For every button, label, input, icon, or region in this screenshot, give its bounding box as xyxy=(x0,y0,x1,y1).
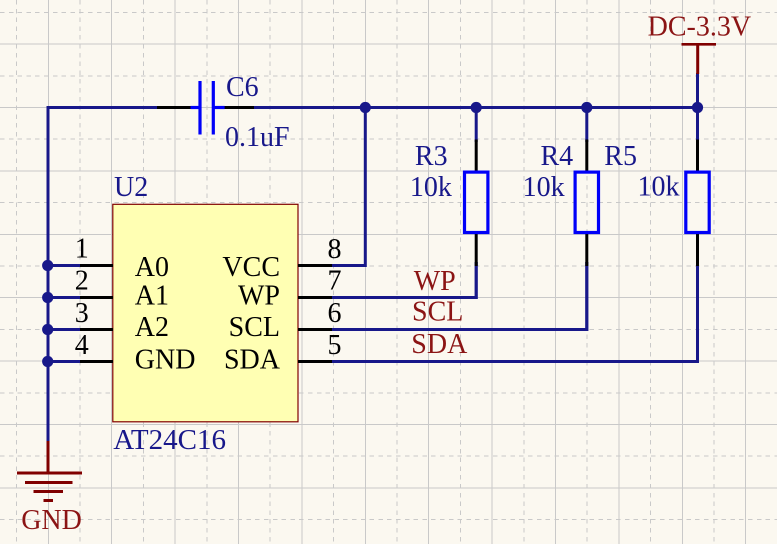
svg-text:SDA: SDA xyxy=(224,345,281,376)
svg-text:VCC: VCC xyxy=(222,252,280,283)
svg-text:0.1uF: 0.1uF xyxy=(225,122,290,153)
svg-text:2: 2 xyxy=(75,266,89,297)
svg-text:WP: WP xyxy=(414,266,456,297)
svg-text:AT24C16: AT24C16 xyxy=(113,424,226,456)
svg-text:1: 1 xyxy=(75,234,89,265)
svg-text:SCL: SCL xyxy=(229,312,280,343)
svg-text:3: 3 xyxy=(75,298,89,329)
svg-text:R3: R3 xyxy=(415,141,448,172)
svg-text:R4: R4 xyxy=(541,141,574,172)
svg-text:10k: 10k xyxy=(410,172,452,203)
svg-text:C6: C6 xyxy=(226,72,259,103)
svg-text:GND: GND xyxy=(21,505,82,536)
svg-text:R5: R5 xyxy=(604,141,637,172)
svg-text:SDA: SDA xyxy=(411,329,468,360)
svg-text:6: 6 xyxy=(328,298,342,329)
svg-text:A1: A1 xyxy=(135,281,169,312)
svg-text:5: 5 xyxy=(328,330,342,361)
svg-text:WP: WP xyxy=(238,281,280,312)
svg-text:10k: 10k xyxy=(638,172,680,203)
svg-text:7: 7 xyxy=(328,266,342,297)
svg-text:DC-3.3V: DC-3.3V xyxy=(648,11,751,42)
svg-text:A0: A0 xyxy=(135,252,169,283)
svg-text:10k: 10k xyxy=(523,172,565,203)
svg-text:8: 8 xyxy=(328,234,342,265)
svg-text:4: 4 xyxy=(75,330,89,361)
svg-text:U2: U2 xyxy=(114,172,148,203)
svg-text:A2: A2 xyxy=(135,312,169,343)
svg-text:SCL: SCL xyxy=(412,297,463,328)
svg-text:GND: GND xyxy=(135,345,196,376)
